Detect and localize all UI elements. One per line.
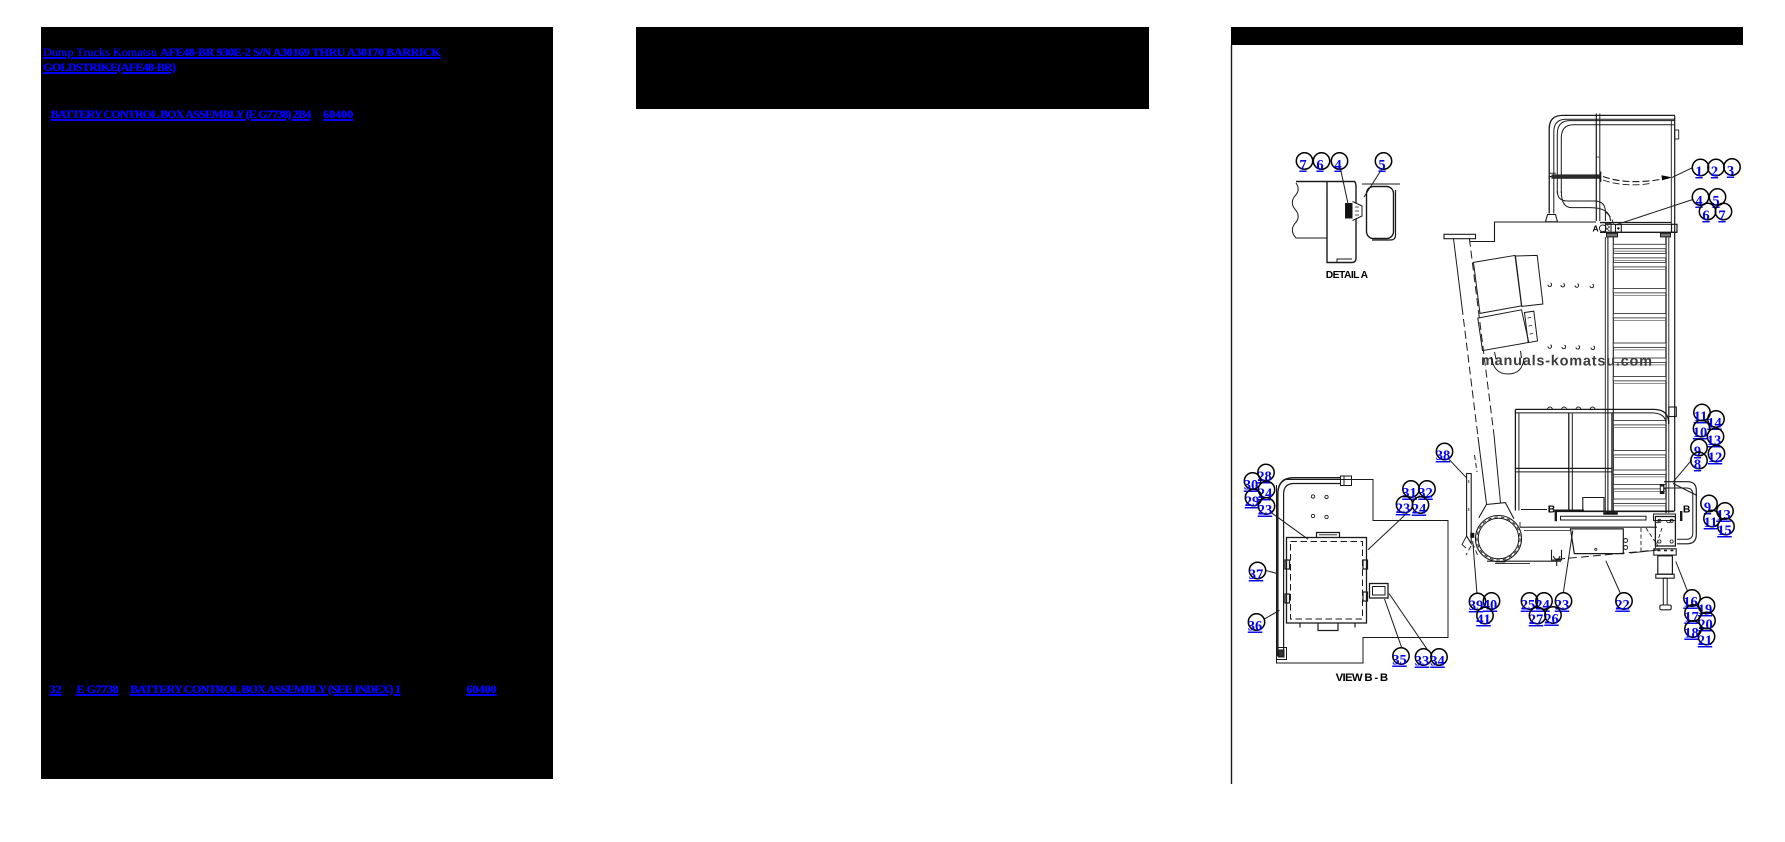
callout 41	[1476, 607, 1493, 628]
VIEW B-B: connector (items 33/34/35)	[1370, 584, 1389, 599]
svg-text:24: 24	[1258, 486, 1273, 502]
DETAIL A: connector (item 4)	[1346, 202, 1363, 221]
truck body top edge	[1470, 222, 1597, 242]
svg-text:33: 33	[1415, 654, 1430, 670]
U-clamp bracket	[1552, 550, 1562, 566]
svg-text:36: 36	[1248, 619, 1263, 635]
svg-text:1: 1	[1695, 164, 1702, 180]
tilted panel 3	[1478, 310, 1529, 351]
callout 23	[1555, 593, 1572, 614]
svg-text:26: 26	[1544, 612, 1559, 628]
svg-text:23: 23	[1258, 503, 1273, 519]
callout 1	[1692, 159, 1708, 180]
cage top bolts	[1548, 407, 1596, 409]
callout 19	[1698, 597, 1715, 618]
support leg lower	[1654, 549, 1676, 610]
svg-text:13: 13	[1716, 508, 1731, 524]
handrail inner loop return	[1557, 191, 1610, 221]
svg-text:manuals-komatsu.com: manuals-komatsu.com	[1481, 353, 1652, 370]
parts table row	[49, 683, 61, 695]
svg-text:34: 34	[1430, 654, 1445, 670]
svg-text:DETAIL A: DETAIL A	[1326, 270, 1369, 281]
VIEW B-B: handrail pipe	[1278, 478, 1341, 657]
callout 6	[1699, 203, 1715, 224]
handrail inner post	[1596, 114, 1600, 222]
leader lines	[1264, 168, 1697, 650]
callout 34	[1430, 649, 1447, 670]
callout 4	[1692, 189, 1708, 210]
right frame dashed details	[1641, 528, 1662, 552]
section B-B marks	[1556, 510, 1681, 522]
callout 10	[1693, 420, 1710, 441]
VIEW B-B: pipe clamp top	[1341, 476, 1352, 486]
svg-text:27: 27	[1529, 612, 1544, 628]
svg-text:21: 21	[1698, 633, 1713, 649]
handrail inner loop top	[1557, 121, 1675, 193]
callout 7	[1296, 153, 1312, 174]
callout 5	[1375, 153, 1391, 174]
callout 39	[1469, 593, 1486, 614]
callout 18	[1684, 621, 1701, 642]
svg-text:B: B	[1683, 505, 1691, 516]
cage step detail	[1583, 498, 1604, 511]
callout 28	[1257, 464, 1274, 485]
callout 13	[1716, 503, 1733, 524]
rivet row 1	[1548, 283, 1594, 288]
callout 30	[1244, 473, 1261, 494]
callout 5	[1709, 189, 1725, 210]
breadcrumb link line 2	[43, 61, 175, 73]
DETAIL A leader to 5	[1364, 170, 1382, 198]
svg-text:B: B	[1548, 504, 1556, 515]
body flange	[1444, 234, 1476, 238]
callout 11	[1694, 404, 1711, 425]
svg-text:10: 10	[1693, 425, 1708, 441]
platform beam	[1600, 223, 1677, 233]
VIEW B-B: mounting panel outline	[1277, 480, 1449, 664]
callout 17	[1684, 605, 1701, 626]
ladder rungs	[1613, 244, 1666, 506]
callout 31	[1402, 481, 1419, 502]
ladder rails	[1605, 237, 1669, 513]
title row page link	[323, 108, 353, 120]
bracket plate 38	[1462, 474, 1474, 549]
tank lower dashes	[1466, 543, 1478, 556]
svg-text:A: A	[1593, 224, 1599, 234]
support leg upper box	[1655, 517, 1675, 547]
hatch arc under watermark	[1492, 351, 1525, 374]
callout 9	[1691, 439, 1707, 460]
callout 21	[1698, 628, 1715, 649]
svg-text:15: 15	[1717, 523, 1732, 539]
callout 2	[1708, 159, 1724, 180]
A fitting on platform	[1599, 223, 1621, 232]
callout 12	[1708, 445, 1725, 466]
callout 36	[1248, 614, 1265, 635]
callout 16	[1683, 590, 1700, 611]
VIEW B-B: box bottom tab	[1318, 623, 1338, 631]
cage box frame	[1515, 407, 1676, 511]
svg-text:22: 22	[1615, 598, 1630, 614]
callout 33	[1415, 649, 1432, 670]
svg-text:4: 4	[1334, 158, 1341, 174]
platform support feet	[1607, 233, 1671, 237]
handrail outer loop	[1549, 115, 1675, 213]
chute line B	[1469, 239, 1500, 503]
svg-text:2: 2	[1711, 164, 1718, 180]
breadcrumb link line 1	[43, 46, 440, 58]
svg-text:23: 23	[1396, 501, 1411, 517]
tilted panel 4	[1525, 311, 1538, 342]
handrail post foot	[1546, 215, 1558, 222]
under-beam battery box	[1571, 529, 1628, 554]
svg-text:6: 6	[1702, 208, 1709, 224]
VIEW B-B: battery box dashed outline	[1287, 538, 1367, 624]
callout 6	[1313, 153, 1329, 174]
DETAIL A: mounting plate	[1327, 182, 1356, 263]
svg-text:35: 35	[1392, 653, 1407, 669]
callout 24	[1535, 593, 1552, 614]
grab rail loop	[1660, 482, 1697, 544]
svg-text:7: 7	[1718, 208, 1725, 224]
svg-text:6: 6	[1316, 158, 1323, 174]
body right edge	[1671, 116, 1678, 511]
callout 32	[1418, 481, 1435, 502]
callout 7	[1715, 203, 1731, 224]
svg-text:30: 30	[1244, 478, 1259, 494]
callout 4	[1331, 153, 1347, 174]
callout 11	[1704, 510, 1721, 531]
svg-text:8: 8	[1694, 457, 1701, 473]
VIEW B-B: bolt holes	[1311, 495, 1328, 519]
callout 24	[1258, 481, 1275, 502]
callout 3	[1724, 159, 1740, 180]
callout 35	[1392, 648, 1409, 669]
callout 37	[1249, 562, 1266, 583]
DETAIL A: cover box (item 5)	[1362, 184, 1400, 240]
VIEW B-B: box top tab	[1317, 533, 1340, 538]
tilted panel 2	[1516, 255, 1543, 306]
DETAIL A leader to 4	[1341, 169, 1349, 206]
rivet row 2	[1548, 345, 1595, 350]
svg-text:37: 37	[1249, 567, 1264, 583]
svg-text:11: 11	[1704, 515, 1718, 531]
tank cap	[1475, 455, 1514, 519]
callout 23	[1258, 498, 1275, 519]
svg-text:7: 7	[1299, 158, 1306, 174]
callout 22	[1615, 593, 1632, 614]
callout 26	[1544, 607, 1561, 628]
callout 14	[1707, 411, 1724, 432]
callout 13	[1707, 428, 1724, 449]
chute line A	[1454, 239, 1487, 504]
DETAIL A: panel with break (wavy) edge	[1292, 182, 1355, 239]
svg-text:5: 5	[1378, 158, 1385, 174]
beam right section	[1654, 514, 1676, 523]
callout 40	[1483, 593, 1500, 614]
VIEW B-B: pipe clamp bottom	[1277, 648, 1287, 660]
parts diagram svg	[1225, 0, 1785, 842]
svg-text:16: 16	[1683, 595, 1698, 611]
callout 20	[1698, 612, 1715, 633]
right top black bar	[1231, 27, 1743, 45]
callout 8	[1691, 452, 1707, 473]
svg-text:3: 3	[1727, 164, 1734, 180]
svg-text:41: 41	[1476, 612, 1491, 628]
svg-text:24: 24	[1412, 502, 1427, 518]
tank circle	[1476, 516, 1522, 562]
svg-text:12: 12	[1708, 450, 1723, 466]
callout 24	[1412, 497, 1429, 518]
swoosh arrowhead	[1662, 175, 1673, 180]
callout 27	[1529, 607, 1546, 628]
tilted panel 1	[1474, 255, 1522, 313]
svg-text:38: 38	[1436, 448, 1451, 464]
callout 9	[1701, 495, 1717, 516]
svg-text:13: 13	[1707, 433, 1722, 449]
VIEW B-B: box edge cleats	[1285, 560, 1368, 628]
callout balloons	[1244, 153, 1740, 670]
left black panel	[41, 27, 553, 779]
callout 38	[1436, 443, 1453, 464]
main beam	[1520, 511, 1675, 530]
handrail mid rail	[1549, 172, 1601, 183]
frame bottom lines	[1487, 550, 1660, 564]
callout 23	[1396, 496, 1413, 517]
svg-text:VIEW B - B: VIEW B - B	[1336, 672, 1388, 684]
vertical page divider line	[1231, 45, 1233, 784]
callout 25	[1521, 593, 1538, 614]
phantom rail swoosh	[1603, 177, 1671, 225]
middle black panel	[636, 27, 1149, 109]
title row link	[50, 108, 310, 120]
svg-text:18: 18	[1684, 626, 1699, 642]
callout 15	[1717, 518, 1734, 539]
callout 29	[1245, 489, 1262, 510]
